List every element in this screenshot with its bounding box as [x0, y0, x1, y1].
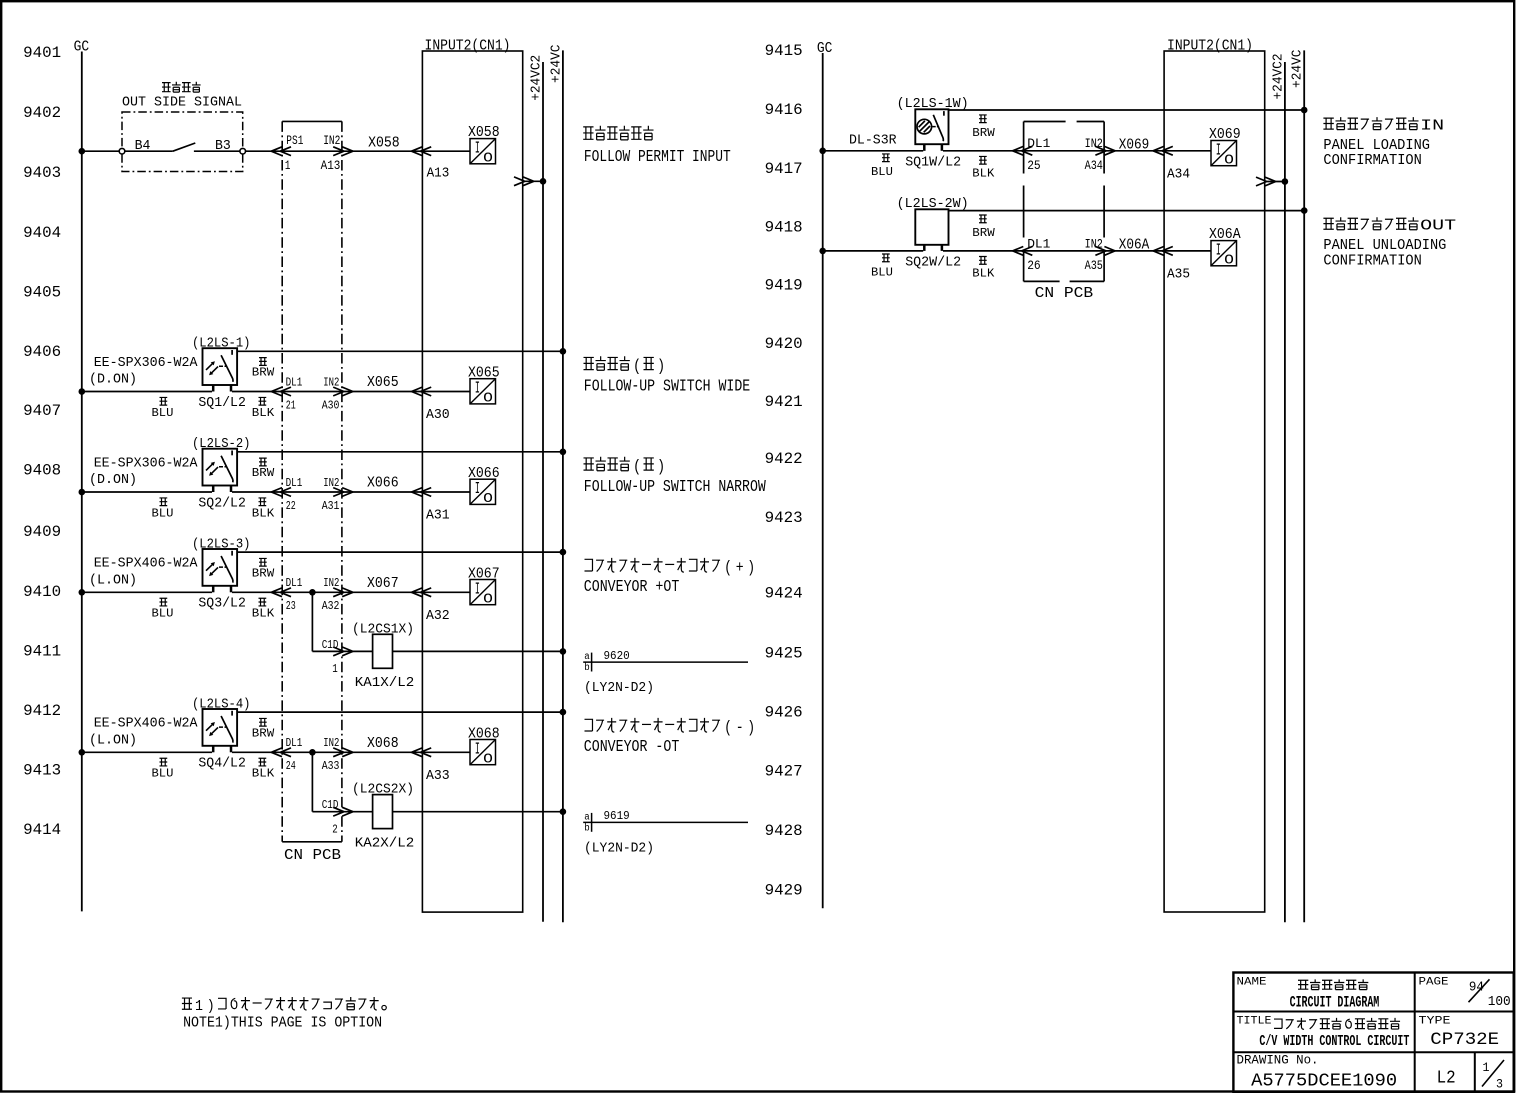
connector arrow IN2 L2LS-1: [333, 387, 353, 396]
svg-text:9408: 9408: [23, 461, 61, 479]
I/O point X069: [1209, 126, 1241, 169]
wire GC to terminal B4: [82, 150, 119, 152]
wire sensor L2LS-2W to I/O: [943, 250, 1211, 252]
connector arrow INPUT2 A35: [1153, 247, 1173, 256]
label description L2LS-2 (Japanese): [584, 457, 666, 476]
power rail +24VC2 (left): [530, 55, 545, 922]
wire +24VC brown lead L2LS-1W: [949, 109, 1305, 111]
note text (Japanese): [182, 997, 386, 1015]
svg-text:IN2: IN2: [323, 133, 340, 148]
connector INPUT2(CN1) left: [422, 38, 522, 912]
connector arrow IN2 L2LS-3: [333, 588, 353, 597]
I/O point X06A: [1209, 226, 1241, 269]
svg-text:EE-SPX406-W2A: EE-SPX406-W2A: [94, 716, 198, 732]
svg-text:X065: X065: [367, 374, 399, 391]
label description L2LS-1 (Japanese): [584, 356, 666, 375]
svg-text:CN PCB: CN PCB: [284, 848, 341, 864]
label description L2LS-4 (Japanese): [584, 718, 755, 737]
junction on +24VC KA1X/L2: [560, 648, 567, 655]
title block: [1233, 973, 1513, 1092]
label description L2LS-1W (Japanese): [1323, 117, 1444, 135]
svg-text:BRW: BRW: [252, 366, 275, 380]
svg-text:I: I: [475, 480, 480, 499]
label description L2LS-1W (English): [1323, 138, 1430, 169]
svg-text:(L.ON): (L.ON): [89, 733, 137, 748]
svg-text:BLU: BLU: [871, 165, 893, 179]
wire INPUT2 to +24VC2 rail (left): [523, 180, 543, 182]
svg-text:9424: 9424: [765, 584, 803, 602]
label black lead L2LS-2: [252, 498, 275, 520]
connector arrow IN2 L2LS-1W: [1095, 146, 1115, 155]
svg-text:b: b: [584, 662, 590, 674]
svg-text:CIRCUIT DIAGRAM: CIRCUIT DIAGRAM: [1290, 993, 1380, 1011]
svg-text:9407: 9407: [23, 402, 61, 420]
title block DRAWING No cell: [1237, 1053, 1398, 1092]
label black lead L2LS-2W: [972, 257, 995, 281]
label description L2LS-2W (Japanese): [1323, 217, 1456, 235]
svg-text:9411: 9411: [23, 643, 61, 661]
svg-text:A30: A30: [426, 407, 450, 423]
svg-text:(: (: [724, 718, 732, 737]
svg-text:CONVEYOR -OT: CONVEYOR -OT: [584, 738, 680, 757]
label brown lead L2LS-2W: [972, 215, 995, 240]
label description L2LS-3 (Japanese): [584, 558, 755, 577]
label blue lead L2LS-1W: [871, 154, 893, 179]
svg-text:23: 23: [286, 599, 296, 613]
svg-text:9429: 9429: [765, 882, 803, 900]
svg-text:IN2: IN2: [323, 476, 339, 490]
connector arrow INPUT2 A32: [412, 588, 432, 597]
label IN2 pin A13: [321, 133, 341, 173]
connector arrow IN2 L2LS-2: [333, 488, 353, 497]
svg-text:9420: 9420: [765, 335, 803, 353]
svg-text:9409: 9409: [23, 523, 61, 541]
svg-text:INPUT2(CN1): INPUT2(CN1): [425, 38, 511, 54]
label brown lead L2LS-2: [252, 458, 275, 480]
svg-text:9426: 9426: [765, 704, 803, 722]
outside signal dash-dot box: [122, 112, 243, 172]
svg-text:BRW: BRW: [252, 726, 275, 740]
svg-text:B3: B3: [215, 138, 231, 154]
junction on +24VC L2LS-2: [560, 449, 567, 456]
node GC (right): [817, 41, 833, 908]
switch blade B4-B3: [125, 143, 240, 151]
svg-text:X06A: X06A: [1119, 236, 1150, 253]
connector arrow IN2 L2LS-4: [333, 748, 353, 757]
svg-text:3: 3: [1496, 1077, 1503, 1092]
svg-text:2: 2: [332, 822, 338, 836]
svg-text:DL1: DL1: [286, 576, 303, 590]
svg-text:BLU: BLU: [152, 506, 174, 520]
svg-text:DRAWING No.: DRAWING No.: [1237, 1053, 1319, 1068]
I/O point X058: [468, 124, 500, 167]
svg-text:O: O: [483, 592, 493, 608]
connector arrow IN2 L2LS-2W: [1095, 247, 1115, 256]
I/O point X066: [468, 465, 500, 507]
label outside signal (Japanese): [162, 82, 201, 92]
svg-text:IN2: IN2: [323, 576, 339, 590]
svg-text:9416: 9416: [765, 101, 803, 119]
svg-text:A34: A34: [1085, 158, 1103, 173]
svg-text:PS1: PS1: [286, 133, 303, 148]
title block TITLE cell: [1237, 1015, 1410, 1049]
junction GC L2LS-2: [79, 489, 86, 496]
svg-text:BLK: BLK: [972, 166, 995, 180]
svg-text:(L2LS-1): (L2LS-1): [192, 337, 251, 352]
svg-text:TYPE: TYPE: [1419, 1015, 1451, 1027]
junction on +24VC L2LS-1: [560, 348, 567, 355]
connector arrow IN2 row1 (right): [333, 147, 353, 156]
svg-text:+24VC2: +24VC2: [1271, 54, 1286, 100]
connector arrow DL1 L2LS-2W: [1013, 247, 1033, 256]
svg-text:BRW: BRW: [252, 566, 275, 580]
label blue lead L2LS-3: [152, 598, 174, 620]
svg-text:FOLLOW PERMIT INPUT: FOLLOW PERMIT INPUT: [584, 148, 731, 167]
label IN2 pin A35: [1085, 236, 1103, 273]
junction branch to KA1X/L2: [309, 589, 316, 596]
label DL1 pin 25: [1027, 136, 1050, 173]
connector arrow DL1 L2LS-1W: [1013, 146, 1033, 155]
svg-text:A5775DCEE1090: A5775DCEE1090: [1251, 1071, 1397, 1092]
svg-text:a: a: [584, 652, 590, 663]
svg-text:BLK: BLK: [252, 767, 275, 781]
label description L2LS-2W (English): [1323, 238, 1446, 269]
svg-text:): ): [207, 999, 215, 1015]
wire +24VC brown lead L2LS-2W: [949, 210, 1305, 212]
power rail +24VC (right): [1291, 50, 1306, 923]
svg-text:X067: X067: [367, 575, 399, 592]
connector arrow C1D pin 1: [322, 638, 353, 676]
svg-text:OUT: OUT: [1420, 218, 1456, 235]
svg-text:+24VC: +24VC: [549, 45, 564, 84]
label IN2 pin A34: [1085, 136, 1103, 173]
title block TYPE cell CP732E: [1419, 1015, 1500, 1049]
photoelectric sensor SQ4/L2 (L2LS-4): [89, 697, 251, 752]
photoelectric sensor SQ3/L2 (L2LS-3): [89, 537, 251, 592]
label DL1 pin 23: [286, 576, 303, 613]
wire +24VC brown lead L2LS-3: [237, 551, 563, 553]
label black lead L2LS-4: [252, 758, 275, 780]
svg-text:PANEL LOADING: PANEL LOADING: [1323, 138, 1430, 154]
svg-text:a: a: [584, 813, 590, 824]
I/O point X068: [468, 725, 500, 767]
wire B3 to X058 I/O: [246, 150, 471, 152]
wire sensor to I/O L2LS-1: [232, 391, 470, 393]
svg-text:+24VC2: +24VC2: [530, 55, 545, 101]
svg-text:A31: A31: [426, 508, 450, 524]
svg-text:1: 1: [195, 999, 203, 1015]
junction on +24VC L2LS-4: [560, 709, 567, 716]
label blue lead L2LS-4: [152, 758, 174, 780]
svg-text:): ): [747, 558, 755, 577]
svg-text:IN: IN: [1420, 118, 1444, 135]
junction GC L2LS-1W: [819, 148, 826, 155]
photoelectric sensor SQ2/L2 (L2LS-2): [89, 437, 251, 492]
svg-text:A33: A33: [426, 768, 450, 784]
svg-text:(L.ON): (L.ON): [89, 573, 137, 588]
title block NAME cell: [1237, 976, 1380, 1011]
svg-text:26: 26: [1027, 258, 1041, 273]
label IN2 pin A31: [322, 476, 340, 513]
connector arrow DL1 L2LS-4: [271, 748, 291, 757]
wire sensor to I/O L2LS-2: [232, 491, 470, 493]
svg-text:BRW: BRW: [972, 126, 995, 140]
svg-text:-: -: [736, 718, 744, 737]
svg-text:I: I: [1216, 242, 1221, 261]
svg-text:EE-SPX406-W2A: EE-SPX406-W2A: [94, 556, 198, 572]
svg-text:A34: A34: [1167, 166, 1190, 182]
wire branch down to coil KA1X/L2: [312, 592, 372, 651]
svg-text:A35: A35: [1085, 258, 1103, 273]
svg-text:1: 1: [332, 662, 338, 676]
svg-text:9415: 9415: [765, 42, 803, 60]
svg-text:9425: 9425: [765, 644, 803, 662]
svg-text:PAGE: PAGE: [1419, 976, 1449, 988]
svg-text:9414: 9414: [23, 821, 61, 839]
label brown lead L2LS-1: [252, 358, 275, 380]
wire +24VC brown lead L2LS-4: [237, 711, 563, 713]
svg-text:DL1: DL1: [1027, 236, 1050, 251]
junction on +24VC L2LS-1W: [1301, 107, 1308, 114]
sensor SQ2W/L2 (L2LS-2W): [897, 197, 969, 251]
svg-text:(L2LS-2): (L2LS-2): [192, 437, 251, 452]
svg-text:9620: 9620: [604, 649, 630, 663]
wire GC to sensor L2LS-4: [82, 751, 212, 753]
svg-text:O: O: [483, 752, 493, 768]
label black lead L2LS-3: [252, 598, 275, 620]
svg-text:9413: 9413: [23, 762, 61, 780]
svg-text:IN2: IN2: [323, 375, 339, 389]
connector arrow INPUT2 A13: [412, 147, 432, 156]
label DL1 pin 22: [286, 476, 303, 513]
svg-text:(: (: [724, 558, 732, 577]
connector arrow DL1 L2LS-1: [271, 387, 291, 396]
svg-text:CP732E: CP732E: [1430, 1030, 1499, 1050]
svg-text:25: 25: [1027, 158, 1041, 173]
svg-text:9406: 9406: [23, 343, 61, 361]
I/O point X065: [468, 365, 500, 407]
connector arrow to +24VC2 (right): [1256, 177, 1276, 186]
power rail +24VC (left): [549, 45, 564, 923]
wire +24VC brown lead L2LS-2: [237, 451, 563, 453]
svg-text:BRW: BRW: [252, 466, 275, 480]
svg-text:SQ1W/L2: SQ1W/L2: [905, 155, 961, 170]
svg-text:21: 21: [286, 398, 296, 412]
connector CN PCB (left) outline: [282, 121, 342, 863]
svg-text:NAME: NAME: [1237, 976, 1267, 988]
label brown lead L2LS-1W: [972, 115, 995, 140]
svg-text:C1D: C1D: [322, 798, 339, 812]
svg-text:DL1: DL1: [286, 375, 303, 389]
title block PAGE cell 94/100: [1419, 976, 1511, 1010]
label black lead L2LS-1: [252, 397, 275, 419]
junction on +24VC L2LS-3: [560, 549, 567, 556]
connector arrow INPUT2 A31: [412, 488, 432, 497]
wire branch down to coil KA2X/L2: [312, 752, 372, 811]
connector arrow DL1 L2LS-3: [271, 588, 291, 597]
wire coil KA2X/L2 to +24VC: [393, 811, 563, 813]
junction GC L2LS-1: [79, 388, 86, 395]
svg-text:9412: 9412: [23, 702, 61, 720]
svg-text:A35: A35: [1167, 266, 1190, 282]
svg-text:BLK: BLK: [972, 267, 995, 281]
svg-text:INPUT2(CN1): INPUT2(CN1): [1167, 38, 1253, 54]
junction branch to KA2X/L2: [309, 749, 316, 756]
svg-text:PANEL UNLOADING: PANEL UNLOADING: [1323, 238, 1446, 254]
svg-text:22: 22: [286, 499, 296, 513]
wire sensor L2LS-1W to I/O: [943, 150, 1211, 152]
wire sensor to I/O L2LS-3: [232, 591, 470, 593]
svg-text:X058: X058: [368, 134, 400, 151]
line number labels 9401-9414 (left rail): [23, 44, 61, 839]
svg-text:CONFIRMATION: CONFIRMATION: [1323, 153, 1421, 169]
svg-text:9423: 9423: [765, 509, 803, 527]
svg-text:24: 24: [286, 759, 296, 773]
svg-text:A30: A30: [322, 398, 340, 412]
svg-text:9405: 9405: [23, 283, 61, 301]
photoelectric sensor SQ1/L2 (L2LS-1): [89, 337, 251, 392]
node GC (left): [74, 40, 90, 912]
svg-text:DL1: DL1: [1027, 136, 1050, 151]
svg-text:O: O: [1224, 253, 1234, 269]
svg-text:NOTE1)THIS PAGE IS OPTION: NOTE1)THIS PAGE IS OPTION: [183, 1014, 382, 1031]
svg-text:9418: 9418: [765, 219, 803, 237]
label DL1 pin 21: [286, 375, 303, 412]
cross reference contacts 9619 (LY2N-D2): [583, 809, 748, 856]
svg-text:A32: A32: [426, 608, 450, 624]
svg-text:IN2: IN2: [323, 736, 339, 750]
svg-text:I: I: [475, 140, 480, 159]
svg-text:BRW: BRW: [972, 226, 995, 240]
svg-text:L2: L2: [1437, 1067, 1456, 1088]
I/O point X067: [468, 565, 500, 607]
svg-text:IN2: IN2: [1085, 136, 1103, 151]
svg-text:): ): [747, 718, 755, 737]
svg-text:9404: 9404: [23, 224, 61, 242]
svg-text:1: 1: [285, 158, 291, 173]
svg-text:100: 100: [1488, 994, 1511, 1010]
svg-text:C1D: C1D: [322, 638, 339, 652]
wire GC to sensor L2LS-2: [82, 491, 212, 493]
svg-text:(L2CS1X): (L2CS1X): [352, 622, 414, 637]
svg-text:9422: 9422: [765, 450, 803, 468]
svg-text:9403: 9403: [23, 164, 61, 182]
svg-text:FOLLOW-UP SWITCH NARROW: FOLLOW-UP SWITCH NARROW: [584, 478, 767, 497]
label IN2 pin A32: [322, 576, 340, 613]
svg-text:I: I: [475, 380, 480, 399]
svg-text:): ): [657, 357, 665, 376]
svg-text:A31: A31: [322, 499, 340, 513]
wire coil KA1X/L2 to +24VC: [393, 650, 563, 652]
svg-text:SQ2W/L2: SQ2W/L2: [905, 256, 961, 271]
svg-text:KA1X/L2: KA1X/L2: [355, 676, 415, 691]
svg-text:EE-SPX306-W2A: EE-SPX306-W2A: [94, 455, 198, 471]
svg-text:A13: A13: [427, 165, 450, 181]
line number labels 9415-9429 (right rail): [765, 42, 803, 900]
svg-text:CONFIRMATION: CONFIRMATION: [1323, 253, 1421, 269]
terminal B3: [240, 148, 246, 154]
svg-text:9619: 9619: [604, 809, 630, 823]
junction on +24VC KA2X/L2: [560, 808, 567, 815]
svg-text:+: +: [736, 558, 744, 577]
svg-text:SQ4/L2: SQ4/L2: [198, 757, 246, 772]
label follow permit input (Japanese): [583, 126, 653, 140]
junction GC L2LS-4: [79, 749, 86, 756]
junction on +24VC2 (right): [1282, 178, 1289, 185]
svg-text:(LY2N-D2): (LY2N-D2): [584, 681, 654, 696]
svg-text:BLU: BLU: [152, 406, 174, 420]
svg-text:OUT SIDE SIGNAL: OUT SIDE SIGNAL: [122, 95, 242, 111]
svg-text:I: I: [475, 581, 480, 600]
svg-text:9402: 9402: [23, 104, 61, 122]
junction on +24VC2 (left): [540, 178, 547, 185]
wire GC to sensor L2LS-2W: [823, 250, 924, 252]
connector INPUT2(CN1) right: [1164, 38, 1265, 912]
svg-text:BLU: BLU: [152, 767, 174, 781]
svg-text:IN2: IN2: [1085, 236, 1103, 251]
svg-text:BLU: BLU: [871, 265, 893, 279]
label DL1 pin 24: [286, 736, 303, 773]
svg-text:(: (: [633, 457, 641, 476]
svg-text:GC: GC: [817, 41, 833, 57]
svg-text:I: I: [1216, 142, 1221, 161]
label blue lead L2LS-2W: [871, 254, 893, 279]
svg-text:(L2LS-3): (L2LS-3): [192, 537, 251, 552]
svg-text:b: b: [584, 822, 590, 834]
wire GC to sensor L2LS-1W: [823, 150, 924, 152]
svg-text:(L2CS2X): (L2CS2X): [352, 783, 414, 798]
terminal B4: [119, 148, 125, 154]
svg-text:I: I: [475, 741, 480, 760]
relay coil KA1X/L2 (L2CS1X): [352, 622, 414, 691]
junction GC L2LS-3: [79, 589, 86, 596]
wire +24VC brown lead L2LS-1: [237, 350, 563, 352]
svg-text:): ): [657, 457, 665, 476]
svg-text:X069: X069: [1119, 136, 1150, 153]
svg-text:DL1: DL1: [286, 476, 303, 490]
label brown lead L2LS-3: [252, 558, 275, 580]
svg-text:TITLE: TITLE: [1237, 1015, 1272, 1027]
svg-text:O: O: [483, 491, 493, 507]
svg-text:X066: X066: [367, 475, 399, 492]
wire INPUT2 to +24VC2 rail (right): [1265, 181, 1285, 183]
svg-text:SQ2/L2: SQ2/L2: [198, 496, 246, 511]
svg-text:A33: A33: [322, 759, 340, 773]
svg-text:X068: X068: [367, 735, 399, 752]
label black lead L2LS-1W: [972, 156, 995, 180]
svg-text:(D.ON): (D.ON): [89, 473, 137, 488]
label IN2 pin A33: [322, 736, 340, 773]
connector arrow to +24VC2 (left): [514, 177, 534, 186]
svg-text:9401: 9401: [23, 44, 61, 62]
connector arrow INPUT2 A34: [1153, 146, 1173, 155]
relay coil KA2X/L2 (L2CS2X): [352, 783, 414, 852]
svg-text:1: 1: [1483, 1060, 1490, 1075]
power rail +24VC2 (right): [1271, 54, 1286, 923]
connector arrow DL1 L2LS-2: [271, 488, 291, 497]
label DL1 pin 26: [1027, 236, 1050, 273]
svg-text:(D.ON): (D.ON): [89, 373, 137, 388]
svg-text:(: (: [633, 357, 641, 376]
svg-text:CONVEYOR +OT: CONVEYOR +OT: [584, 578, 680, 597]
svg-text:DL-S3R: DL-S3R: [849, 133, 897, 149]
svg-text:9410: 9410: [23, 583, 61, 601]
svg-text:C/V WIDTH CONTROL CIRCUIT: C/V WIDTH CONTROL CIRCUIT: [1259, 1033, 1409, 1050]
junction on +24VC L2LS-2W: [1301, 207, 1308, 214]
svg-text:SQ3/L2: SQ3/L2: [198, 597, 246, 612]
connector arrow INPUT2 A30: [412, 387, 432, 396]
svg-text:9428: 9428: [765, 822, 803, 840]
